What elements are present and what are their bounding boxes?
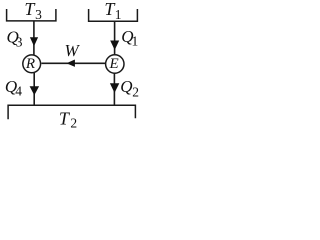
- reservoir T1 (hot reservoir bracket, top-right): [89, 9, 138, 21]
- arrowhead Q1: [110, 41, 119, 51]
- svg-text:2: 2: [70, 116, 77, 131]
- arrowhead Q3: [30, 37, 38, 46]
- engine E (circle): [106, 55, 124, 73]
- reservoir T3 (hot reservoir bracket, top-left): [7, 9, 56, 21]
- arrowhead Q4: [30, 86, 39, 95]
- svg-text:1: 1: [115, 7, 122, 22]
- wire W (from E left to R right): [42, 62, 106, 64]
- refrigerator R (circle): [23, 55, 41, 73]
- wire Q2 (from E down to T2): [113, 74, 115, 106]
- svg-text:2: 2: [132, 84, 139, 99]
- svg-text:W: W: [65, 41, 81, 60]
- wire Q1 (from T1 down to E): [114, 21, 116, 54]
- svg-text:E: E: [109, 56, 119, 72]
- svg-text:Q: Q: [120, 77, 132, 96]
- arrowhead Q2: [110, 83, 119, 93]
- svg-text:3: 3: [35, 7, 42, 22]
- wire Q3 (from T3 down to R): [33, 21, 35, 55]
- arrowhead W (pointing left): [66, 60, 75, 67]
- svg-text:1: 1: [132, 34, 139, 49]
- background: [0, 0, 142, 135]
- svg-text:4: 4: [15, 83, 22, 98]
- svg-text:R: R: [25, 56, 35, 72]
- svg-text:3: 3: [16, 35, 23, 50]
- wire Q4 (from R down to T2): [33, 73, 35, 105]
- reservoir T2 (cold reservoir bracket, bottom): [8, 105, 135, 119]
